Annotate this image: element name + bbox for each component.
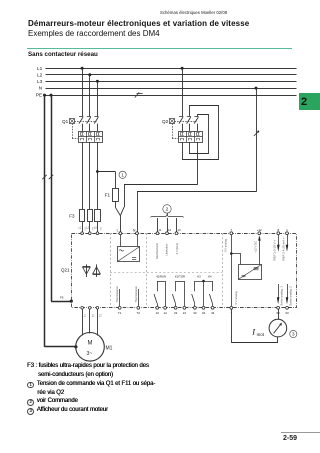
svg-text:0 V (E12): 0 V (E12) <box>175 243 179 254</box>
svg-text:Libération: Libération <box>164 243 168 255</box>
svg-text:24: 24 <box>183 311 187 315</box>
svg-text:12: 12 <box>168 228 172 232</box>
svg-text:N: N <box>133 229 136 233</box>
svg-text:0 V analog.: 0 V analog. <box>234 291 238 305</box>
svg-text:L: L <box>117 229 119 233</box>
svg-text:Thermistance: Thermistance <box>134 286 138 303</box>
svg-text:F3: F3 <box>69 213 75 218</box>
svg-text:33: 33 <box>193 311 197 315</box>
svg-text:34: 34 <box>202 311 206 315</box>
svg-text:3: 3 <box>292 332 295 337</box>
svg-text:2: 2 <box>166 207 169 213</box>
svg-text:T2: T2 <box>92 314 95 317</box>
svg-text:Marche/Arrêt: Marche/Arrêt <box>155 243 159 259</box>
svg-text:0 V analog.: 0 V analog. <box>224 238 228 252</box>
svg-text:T2: T2 <box>137 311 141 315</box>
svg-text:Sortie analog. 2: Sortie analog. 2 <box>289 286 293 306</box>
svg-text:13: 13 <box>156 311 160 315</box>
svg-text:1: 1 <box>121 172 124 177</box>
svg-text:F1: F1 <box>105 192 111 197</box>
svg-text:L1: L1 <box>37 66 43 71</box>
svg-text:11: 11 <box>159 228 162 232</box>
svg-text:23: 23 <box>174 311 178 315</box>
svg-text:N: N <box>39 86 42 91</box>
svg-text:Q21: Q21 <box>61 268 70 273</box>
svg-text:+12 V DC: +12 V DC <box>254 241 258 253</box>
svg-text:mot: mot <box>257 332 265 337</box>
svg-text:1: 1 <box>286 228 288 232</box>
svg-text:43: 43 <box>211 311 215 315</box>
svg-text:REF 2 4-20 mA +: REF 2 4-20 mA + <box>282 237 286 260</box>
svg-text:T1: T1 <box>84 314 87 317</box>
svg-text:Q1: Q1 <box>62 119 69 124</box>
svg-text:L2: L2 <box>37 72 43 77</box>
svg-text:M1: M1 <box>106 346 113 352</box>
svg-text:7: 7 <box>230 228 232 232</box>
svg-text:Sortie analog. 1: Sortie analog. 1 <box>280 286 284 306</box>
svg-text:M: M <box>88 341 93 347</box>
svg-text:T3: T3 <box>99 314 102 317</box>
svg-text:Q2: Q2 <box>162 119 169 124</box>
svg-text:L3: L3 <box>37 79 43 84</box>
svg-text:K2/TOR: K2/TOR <box>175 275 185 279</box>
svg-text:41/RUN: 41/RUN <box>156 275 166 279</box>
svg-text:L3: L3 <box>94 227 97 230</box>
svg-text:63: 63 <box>285 311 289 315</box>
svg-text:PE: PE <box>60 296 64 300</box>
svg-text:Thermistance: Thermistance <box>115 286 119 303</box>
svg-text:PE: PE <box>36 93 42 98</box>
svg-text:I: I <box>251 327 256 337</box>
svg-text:13: 13 <box>178 228 182 232</box>
svg-text:3~: 3~ <box>87 351 93 357</box>
svg-text:L1: L1 <box>79 227 82 230</box>
svg-text:K4: K4 <box>208 275 212 279</box>
svg-text:T1: T1 <box>118 311 122 315</box>
svg-text:14: 14 <box>163 311 167 315</box>
svg-text:+12: +12 <box>257 228 262 232</box>
svg-text:REF 1 0-10 V +: REF 1 0-10 V + <box>273 240 277 261</box>
svg-text:6T3: 6T3 <box>100 226 102 230</box>
svg-text:K3: K3 <box>197 275 201 279</box>
svg-text:8: 8 <box>277 228 279 232</box>
